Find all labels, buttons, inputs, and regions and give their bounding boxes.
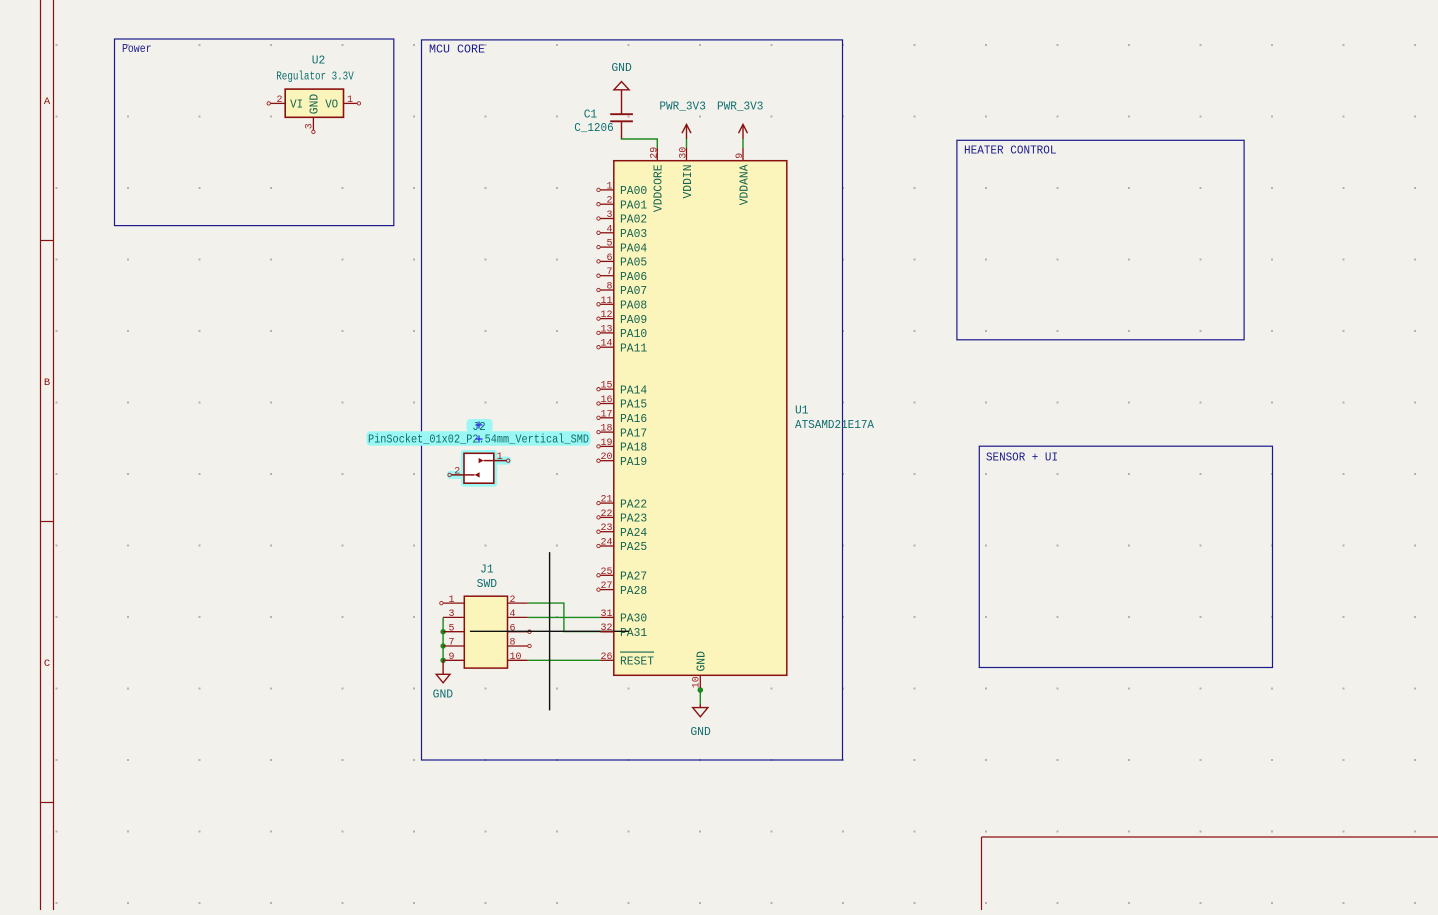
svg-text:29: 29 — [648, 147, 660, 159]
svg-text:23: 23 — [601, 522, 613, 534]
svg-text:PA10: PA10 — [620, 327, 647, 341]
svg-text:PA27: PA27 — [620, 570, 647, 584]
svg-text:5: 5 — [449, 622, 455, 634]
svg-text:8: 8 — [510, 637, 516, 649]
wire J1 pin 10 to U1 RESET — [528, 659, 601, 661]
svg-text:GND: GND — [695, 651, 709, 671]
svg-text:8: 8 — [607, 281, 613, 293]
svg-text:16: 16 — [601, 394, 613, 406]
J2 pin 1 — [479, 451, 510, 463]
connector J1 body — [464, 596, 507, 668]
note box MCU CORE — [422, 40, 843, 760]
svg-text:31: 31 — [601, 608, 613, 620]
svg-text:2: 2 — [454, 465, 460, 477]
U1 pin 24 PA25 — [597, 537, 647, 555]
svg-text:PA31: PA31 — [620, 626, 647, 640]
svg-text:20: 20 — [601, 451, 613, 463]
svg-text:PA06: PA06 — [620, 270, 647, 284]
svg-text:18: 18 — [601, 423, 613, 435]
J1 pin 10 right — [508, 651, 528, 663]
svg-text:25: 25 — [601, 566, 613, 578]
svg-text:GND: GND — [690, 726, 711, 739]
svg-text:13: 13 — [601, 323, 613, 335]
U1 pin 23 PA24 — [597, 522, 647, 540]
wire PWR_3V3 to U1 pin 30 VDDIN — [686, 139, 688, 149]
svg-text:VDDCORE: VDDCORE — [652, 165, 666, 213]
U1 pin 26 RESET — [600, 651, 654, 669]
svg-text:9: 9 — [734, 153, 746, 159]
svg-text:9: 9 — [449, 651, 455, 663]
sheet frame left border lines — [41, 0, 54, 910]
svg-text:6: 6 — [607, 252, 613, 264]
J2 text anchor cross value — [476, 436, 483, 443]
U1 pin 14 PA11 — [597, 338, 647, 356]
power symbol PWR_3V3 #2 — [739, 124, 748, 138]
svg-text:24: 24 — [601, 537, 613, 549]
J1 pin 8 right — [508, 637, 532, 649]
svg-text:3: 3 — [607, 209, 613, 221]
J1 pin 5 left — [443, 622, 464, 634]
svg-text:PA30: PA30 — [620, 612, 647, 626]
svg-text:Power: Power — [122, 43, 152, 56]
svg-text:2: 2 — [607, 195, 613, 207]
svg-text:PA09: PA09 — [620, 313, 647, 327]
svg-text:U2: U2 — [312, 54, 326, 67]
svg-text:ATSAMD21E17A: ATSAMD21E17A — [795, 419, 874, 432]
J2 pin 2 — [448, 465, 480, 477]
svg-text:12: 12 — [601, 309, 613, 321]
svg-text:4: 4 — [607, 223, 613, 235]
ground symbol below U1 pin 10 — [693, 705, 708, 717]
svg-text:PA23: PA23 — [620, 512, 647, 526]
U1 pin 32 PA31 — [600, 622, 647, 640]
U1 pin 16 PA15 — [597, 394, 647, 412]
svg-text:PWR_3V3: PWR_3V3 — [659, 100, 706, 113]
svg-text:1: 1 — [607, 180, 613, 192]
svg-text:GND: GND — [611, 62, 632, 75]
U1 pin 4 PA03 — [597, 223, 647, 241]
svg-text:C_1206: C_1206 — [574, 122, 614, 135]
U1 pin 6 PA05 — [597, 252, 647, 270]
svg-text:17: 17 — [601, 408, 613, 420]
J1 pin 3 left — [443, 608, 464, 620]
U1 pin 31 PA30 — [600, 608, 647, 626]
svg-text:C: C — [44, 658, 50, 670]
svg-text:27: 27 — [601, 580, 613, 592]
svg-text:3: 3 — [304, 123, 316, 129]
editor crosshair cursor vertical — [549, 552, 551, 710]
U1 pin 11 PA08 — [597, 295, 647, 313]
svg-text:VO: VO — [325, 98, 338, 112]
ground symbol below J1 — [436, 661, 450, 683]
wire J1 ground bus pins 3-5-7-9 — [442, 617, 444, 661]
U1 pin 20 PA19 — [597, 451, 647, 469]
svg-text:2: 2 — [277, 94, 283, 106]
regulator U2 body — [285, 89, 343, 117]
U1 pin 19 PA18 — [597, 437, 647, 455]
svg-text:PA08: PA08 — [620, 299, 647, 313]
junction at J1 pin 7 — [440, 643, 445, 648]
selection highlight J2 value band — [367, 431, 591, 445]
svg-text:PA16: PA16 — [620, 412, 647, 426]
svg-text:HEATER CONTROL: HEATER CONTROL — [964, 145, 1057, 158]
U1 pin 1 PA00 — [597, 180, 647, 198]
J1 pin 2 right — [508, 594, 528, 606]
svg-text:SWD: SWD — [477, 578, 498, 591]
U1 pin 8 PA07 — [597, 281, 647, 299]
U2 pin 3 GND bottom — [304, 94, 322, 134]
svg-text:PA07: PA07 — [620, 284, 647, 298]
U1 pin 18 PA17 — [597, 423, 647, 441]
wire J1 pin 2 to U1 PA31 — [528, 603, 601, 631]
svg-text:PA04: PA04 — [620, 241, 647, 255]
wire U1 pin 10 GND to ground — [699, 688, 701, 705]
wire J1 pin 4 to U1 PA30 — [528, 616, 601, 618]
capacitor C1 — [610, 90, 633, 139]
U1 pin 7 PA06 — [597, 266, 647, 284]
svg-text:U1: U1 — [795, 405, 809, 418]
svg-text:PA14: PA14 — [620, 383, 647, 397]
svg-text:1: 1 — [497, 451, 503, 463]
selection highlight J2 reference band — [467, 419, 493, 433]
svg-text:4: 4 — [510, 608, 516, 620]
svg-text:C1: C1 — [584, 108, 598, 121]
U1 pin 10 GND bottom — [691, 651, 709, 688]
note box Power — [115, 39, 394, 226]
U1 pin 21 PA22 — [597, 494, 647, 512]
U1 pin 27 PA28 — [597, 580, 647, 598]
IC U1 body ATSAMD21E17A — [614, 161, 787, 676]
wire C1 to U1 pin 29 VDDCORE — [622, 138, 658, 148]
editor crosshair cursor horizontal — [470, 630, 629, 632]
svg-text:30: 30 — [678, 147, 690, 159]
svg-text:PA15: PA15 — [620, 398, 647, 412]
svg-text:PA02: PA02 — [620, 213, 647, 227]
power symbol GND above C1 — [614, 82, 629, 90]
svg-text:SENSOR + UI: SENSOR + UI — [986, 452, 1058, 465]
svg-text:2: 2 — [510, 594, 516, 606]
svg-text:MCU CORE: MCU CORE — [429, 44, 485, 57]
svg-text:10: 10 — [510, 651, 522, 663]
note box SENSOR + UI — [979, 446, 1272, 667]
svg-text:RESET: RESET — [620, 655, 654, 669]
J2 text anchor cross reference — [476, 422, 483, 429]
U1 pin 22 PA23 — [597, 508, 647, 526]
svg-text:PWR_3V3: PWR_3V3 — [717, 100, 764, 113]
svg-text:Regulator 3.3V: Regulator 3.3V — [276, 71, 354, 84]
U1 pin 25 PA27 — [597, 566, 647, 584]
svg-text:VDDIN: VDDIN — [681, 165, 695, 199]
svg-text:3: 3 — [449, 608, 455, 620]
U1 pin 2 PA01 — [597, 195, 647, 213]
U1 pin 29 VDDCORE top — [648, 147, 665, 212]
junction at U1 pin 10 GND wire — [698, 687, 704, 693]
svg-text:PA18: PA18 — [620, 441, 647, 455]
svg-text:11: 11 — [601, 295, 613, 307]
svg-text:VI: VI — [290, 98, 303, 112]
U1 pin 12 PA09 — [597, 309, 647, 327]
svg-text:22: 22 — [601, 508, 613, 520]
J1 pin 7 left — [443, 637, 464, 649]
junction at J1 pin 9 — [440, 658, 445, 663]
wire PWR_3V3 to U1 pin 9 VDDANA — [742, 139, 744, 149]
svg-text:6: 6 — [510, 622, 516, 634]
U1 pin 9 VDDANA top — [734, 148, 751, 205]
U1 pin 17 PA16 — [597, 408, 647, 426]
J1 pin 6 right — [508, 622, 532, 634]
svg-text:7: 7 — [449, 637, 455, 649]
svg-text:PA03: PA03 — [620, 227, 647, 241]
svg-text:VDDANA: VDDANA — [737, 164, 751, 206]
svg-text:PA22: PA22 — [620, 497, 647, 511]
power symbol PWR_3V3 #1 — [682, 124, 691, 138]
svg-text:GND: GND — [433, 689, 454, 702]
U1 pin 15 PA14 — [597, 380, 647, 398]
svg-text:PA00: PA00 — [620, 184, 647, 198]
J1 pin 1 left — [440, 594, 465, 606]
svg-text:19: 19 — [601, 437, 613, 449]
selection highlight J2 body glow — [461, 450, 497, 487]
svg-text:26: 26 — [601, 651, 613, 663]
svg-text:10: 10 — [691, 676, 703, 688]
U1 pin 32 line over crosshair — [600, 631, 614, 633]
svg-text:PA19: PA19 — [620, 455, 647, 469]
U1 pin 30 VDDIN top — [678, 147, 695, 199]
svg-text:PA25: PA25 — [620, 540, 647, 554]
U1 pin 5 PA04 — [597, 238, 647, 256]
svg-text:14: 14 — [601, 338, 613, 350]
svg-text:A: A — [44, 96, 51, 108]
svg-text:J1: J1 — [480, 564, 494, 577]
svg-text:21: 21 — [601, 494, 613, 506]
J1 pin 9 left — [443, 651, 464, 663]
svg-text:7: 7 — [607, 266, 613, 278]
svg-text:PA11: PA11 — [620, 341, 647, 355]
svg-text:5: 5 — [607, 238, 613, 250]
svg-text:PA28: PA28 — [620, 584, 647, 598]
U2 pin 2 VI — [267, 94, 303, 112]
U1 pin 3 PA02 — [597, 209, 647, 227]
U1 pin 13 PA10 — [597, 323, 647, 341]
svg-text:PA01: PA01 — [620, 198, 647, 212]
note box HEATER CONTROL — [957, 140, 1244, 339]
svg-text:PA17: PA17 — [620, 426, 647, 440]
connector J2 body — [464, 453, 494, 483]
svg-text:B: B — [44, 377, 50, 389]
svg-text:15: 15 — [601, 380, 613, 392]
svg-text:1: 1 — [449, 594, 455, 606]
U2 pin 1 VO — [325, 94, 360, 112]
svg-text:1: 1 — [347, 94, 353, 106]
junction at J1 pin 5 — [440, 629, 445, 634]
svg-text:PA24: PA24 — [620, 526, 647, 540]
svg-text:PA05: PA05 — [620, 256, 647, 270]
svg-text:GND: GND — [308, 94, 322, 114]
J1 pin 4 right — [508, 608, 528, 620]
title block corner lines bottom right — [982, 837, 1438, 910]
